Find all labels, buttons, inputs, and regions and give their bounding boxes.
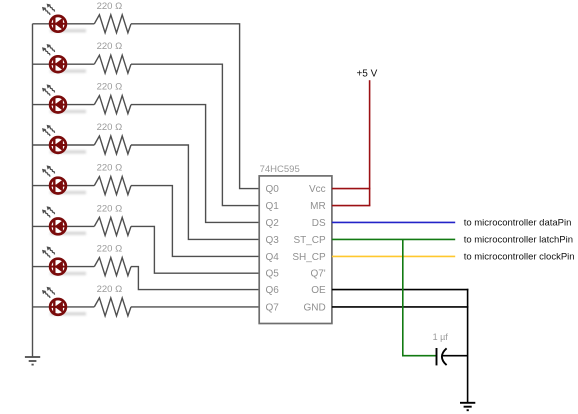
wire resistor R4 to Q3 pin bbox=[131, 145, 259, 239]
svg-text:Q4: Q4 bbox=[266, 252, 280, 263]
resistor R5 220 ohm bbox=[94, 177, 131, 195]
LED D3 bbox=[42, 84, 86, 113]
wire ground bus to LED5 anode-side bbox=[33, 185, 50, 187]
svg-text:OE: OE bbox=[311, 285, 326, 296]
svg-text:Q1: Q1 bbox=[266, 201, 280, 212]
svg-text:MR: MR bbox=[310, 201, 326, 212]
wire resistor R1 to Q0 pin bbox=[131, 24, 259, 189]
wire ground bus to LED2 anode-side bbox=[33, 63, 50, 65]
resistor R4 220 ohm bbox=[94, 136, 131, 154]
resistor R6 220 ohm bbox=[94, 217, 131, 235]
svg-text:220 Ω: 220 Ω bbox=[97, 203, 123, 214]
svg-text:+5 V: +5 V bbox=[356, 68, 377, 79]
wire ground bus (left vertical) bbox=[32, 24, 34, 357]
svg-text:Q7': Q7' bbox=[310, 269, 325, 280]
ground (left) bbox=[25, 357, 40, 365]
wire +5V vertical bbox=[369, 80, 371, 205]
wire OE to ground bbox=[332, 289, 469, 291]
svg-text:GND: GND bbox=[303, 302, 325, 313]
svg-text:Vcc: Vcc bbox=[309, 184, 326, 195]
LED D5 bbox=[42, 165, 86, 194]
svg-text:220 Ω: 220 Ω bbox=[97, 41, 123, 52]
wire LED1 to resistor R1 bbox=[67, 23, 95, 25]
wire resistor R8 to Q7 pin bbox=[131, 306, 259, 308]
wire GND to ground bbox=[332, 306, 469, 308]
op-amp-style IC U1 74HC595 shift register body bbox=[259, 176, 332, 324]
wire MR to +5V bbox=[332, 205, 371, 207]
svg-text:Q3: Q3 bbox=[266, 235, 280, 246]
resistor R2 220 ohm bbox=[94, 55, 131, 73]
wire junction to capacitor C1 bbox=[402, 355, 436, 357]
wire ground bus to LED4 anode-side bbox=[33, 144, 50, 146]
wire capacitor C1 to ground vertical bbox=[442, 355, 467, 357]
wire ground bus to LED8 anode-side bbox=[33, 306, 50, 308]
wire DS to microcontroller dataPin (blue) bbox=[332, 221, 455, 223]
LED D1 bbox=[42, 4, 86, 33]
wire ST_CP to microcontroller latchPin (green) bbox=[332, 238, 455, 240]
svg-text:SH_CP: SH_CP bbox=[292, 252, 326, 263]
svg-text:Q0: Q0 bbox=[266, 184, 280, 195]
LED D2 bbox=[42, 44, 86, 73]
svg-text:220 Ω: 220 Ω bbox=[97, 1, 123, 12]
wire ground bus to LED1 anode-side bbox=[33, 23, 50, 25]
svg-text:to microcontroller clockPin: to microcontroller clockPin bbox=[464, 252, 575, 263]
wire ground vertical (right) bbox=[467, 289, 469, 403]
resistor R3 220 ohm bbox=[94, 96, 131, 114]
svg-text:ST_CP: ST_CP bbox=[293, 235, 326, 246]
svg-text:220 Ω: 220 Ω bbox=[97, 82, 123, 93]
svg-text:74HC595: 74HC595 bbox=[260, 164, 300, 175]
svg-text:DS: DS bbox=[312, 218, 326, 229]
wire LED8 to resistor R8 bbox=[67, 306, 95, 308]
wire SH_CP to microcontroller clockPin (yellow) bbox=[332, 255, 455, 257]
svg-text:to microcontroller latchPin: to microcontroller latchPin bbox=[464, 235, 573, 246]
svg-text:to microcontroller dataPin: to microcontroller dataPin bbox=[464, 218, 572, 229]
capacitor C1 bbox=[437, 348, 447, 365]
wire LED2 to resistor R2 bbox=[67, 63, 95, 65]
wire resistor R2 to Q1 pin bbox=[131, 64, 259, 205]
wire LED7 to resistor R7 bbox=[67, 266, 95, 268]
svg-text:Q5: Q5 bbox=[266, 269, 280, 280]
wire resistor R6 to Q5 pin bbox=[131, 226, 259, 273]
node latchPin / C1 junction bbox=[402, 239, 404, 355]
wire LED5 to resistor R5 bbox=[67, 185, 95, 187]
svg-text:220 Ω: 220 Ω bbox=[97, 244, 123, 255]
svg-text:1 µf: 1 µf bbox=[433, 332, 449, 342]
LED D7 bbox=[42, 246, 86, 275]
wire LED4 to resistor R4 bbox=[67, 144, 95, 146]
LED D8 bbox=[42, 287, 86, 316]
wire resistor R5 to Q4 pin bbox=[131, 186, 259, 257]
LED D6 bbox=[42, 206, 86, 235]
wire ground bus to LED3 anode-side bbox=[33, 104, 50, 106]
wire resistor R7 to Q6 pin bbox=[131, 267, 259, 290]
svg-text:Q2: Q2 bbox=[266, 218, 280, 229]
wire LED6 to resistor R6 bbox=[67, 225, 95, 227]
wire LED3 to resistor R3 bbox=[67, 104, 95, 106]
wire Vcc to +5V bbox=[332, 188, 371, 190]
svg-text:Q6: Q6 bbox=[266, 285, 280, 296]
resistor R7 220 ohm bbox=[94, 258, 131, 276]
svg-text:Q7: Q7 bbox=[266, 302, 280, 313]
wire ground bus to LED7 anode-side bbox=[33, 266, 50, 268]
resistor R8 220 ohm bbox=[94, 298, 131, 316]
svg-text:220 Ω: 220 Ω bbox=[97, 163, 123, 174]
ground (right) bbox=[460, 403, 475, 410]
wire ground bus to LED6 anode-side bbox=[33, 225, 50, 227]
svg-text:220 Ω: 220 Ω bbox=[97, 284, 123, 295]
wire resistor R3 to Q2 pin bbox=[131, 105, 259, 223]
resistor R1 220 ohm bbox=[94, 15, 131, 33]
svg-text:220 Ω: 220 Ω bbox=[97, 122, 123, 133]
LED D4 bbox=[42, 125, 86, 154]
